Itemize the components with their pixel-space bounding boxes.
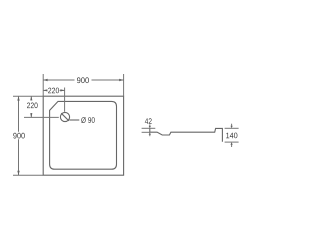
label 220 left — [27, 103, 38, 109]
extension line left of 900 top dim — [42, 74, 44, 96]
extension line drain vertical — [64, 88, 66, 112]
label diameter 90 — [81, 117, 95, 123]
arrowhead 220 left down — [30, 113, 32, 117]
arrowhead 900 top right — [119, 79, 123, 81]
arrowhead 900 top left — [43, 79, 47, 81]
inner tray outline with chamfered top-left corner — [50, 101, 117, 169]
label 900 top — [77, 77, 89, 83]
arrowhead 140 top pointing down — [231, 126, 233, 129]
label 42 — [145, 118, 152, 124]
label 220 top — [48, 88, 59, 94]
arrowhead 42 top pointing down — [149, 126, 151, 128]
outer square of shower tray (plan view) — [43, 96, 123, 175]
label 900 left — [13, 133, 25, 139]
label 140 — [226, 133, 237, 139]
arrowhead 220 top right — [60, 89, 64, 91]
dim line 220 top right segment — [60, 89, 65, 91]
extension line right of 900 top dim — [123, 74, 125, 96]
dim line 220 top left segment — [43, 89, 47, 91]
extension line A top of 42 dim — [142, 127, 156, 129]
dim line 900 left upper segment — [18, 96, 20, 132]
42 dim arrow tails — [149, 124, 151, 126]
dim line 900 left lower segment — [18, 139, 20, 175]
extension line top of 140 dim — [225, 127, 239, 129]
extension line top horizontal (left dims) — [13, 95, 43, 97]
extension line B bottom of 42 dim — [142, 131, 150, 133]
extension line bottom of 140 dim — [225, 141, 239, 143]
arrowhead 900 left top — [17, 96, 19, 100]
arrowhead 220 top left — [43, 89, 47, 91]
leader line for diameter label — [69, 119, 79, 121]
140 dim arrow tails — [231, 124, 233, 126]
arrowhead 900 left bottom — [17, 171, 19, 175]
drain circle — [60, 112, 69, 121]
extension line drain horizontal (left 220 dim) — [24, 116, 59, 118]
drain slash — [61, 113, 69, 121]
dim line 900 top left segment — [43, 79, 74, 81]
arrowhead 140 bottom pointing up — [231, 142, 233, 145]
side profile of tray — [150, 128, 223, 141]
arrowhead 42 bottom pointing up — [149, 132, 151, 134]
left 220 dim arrow tails — [30, 96, 32, 100]
arrowhead 220 left up — [30, 96, 32, 100]
extension line bottom horizontal (left 900 dim) — [13, 174, 43, 176]
dim line 900 top right segment — [92, 79, 124, 81]
